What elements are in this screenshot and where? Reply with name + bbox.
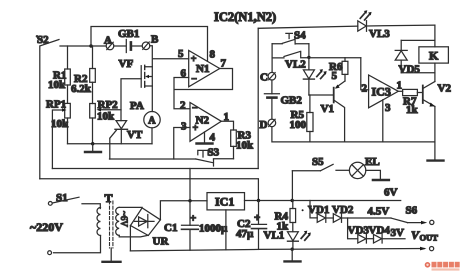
svg-text:47µ: 47µ	[236, 228, 254, 240]
battery GB2	[264, 80, 302, 119]
pushbutton S3	[110, 147, 234, 167]
capacitor C1	[164, 201, 228, 250]
resistor R5	[290, 95, 314, 142]
svg-text:RP1: RP1	[46, 99, 66, 111]
svg-text:RP2: RP2	[98, 99, 119, 111]
svg-text:10k: 10k	[48, 79, 66, 91]
IC1 output pin	[225, 210, 227, 250]
potentiometer RP2	[90, 99, 121, 144]
wire B to VF drain and N1 pin5	[150, 46, 189, 112]
svg-text:S3: S3	[208, 147, 220, 159]
resistor R4	[275, 201, 296, 233]
N2 pin4 ground	[197, 132, 213, 144]
led VL3	[358, 10, 435, 40]
svg-text:T: T	[105, 191, 113, 205]
pushbutton S4	[272, 30, 309, 73]
svg-text:~220V: ~220V	[30, 220, 63, 234]
right block bottom rail	[272, 127, 435, 142]
svg-text:IC3: IC3	[372, 85, 391, 99]
switch S5	[292, 156, 349, 201]
wire N1 feedback to N2 pin2	[174, 69, 233, 109]
svg-text:GB2: GB2	[281, 95, 303, 107]
bottom 0V rail	[130, 249, 424, 251]
svg-text:2: 2	[362, 83, 368, 95]
svg-text:VD2: VD2	[332, 204, 354, 216]
svg-text:N1: N1	[196, 63, 209, 75]
node junction R4	[291, 199, 294, 202]
svg-text:OUT: OUT	[420, 233, 439, 243]
op-amp N2	[180, 100, 229, 144]
watermark logo	[425, 262, 460, 271]
node junction C1	[188, 199, 191, 202]
svg-text:2: 2	[180, 100, 186, 112]
wire VT/PA bottom row	[68, 143, 153, 145]
svg-text:4.5V: 4.5V	[368, 206, 390, 218]
svg-text:1k: 1k	[406, 104, 419, 116]
lamp EL	[349, 156, 389, 180]
svg-text:K: K	[429, 49, 439, 63]
svg-text:VT: VT	[127, 129, 143, 141]
svg-text:V2: V2	[438, 83, 452, 95]
svg-text:7: 7	[221, 58, 227, 70]
svg-text:VL1: VL1	[264, 230, 285, 242]
transistor V1	[309, 81, 345, 142]
ground under RP2	[85, 144, 101, 152]
wire N2 output	[221, 121, 233, 130]
svg-text:VL3: VL3	[369, 28, 390, 40]
diode VD5	[395, 40, 435, 75]
led VL2	[285, 57, 327, 95]
svg-text:10k: 10k	[97, 111, 115, 123]
svg-text:6V: 6V	[384, 187, 398, 199]
svg-text:~6V: ~6V	[119, 211, 129, 227]
resistor R3	[231, 130, 254, 159]
diode VD3	[348, 218, 370, 243]
svg-text:3: 3	[385, 102, 391, 114]
svg-text:+: +	[254, 212, 260, 224]
svg-text:UR: UR	[153, 236, 170, 248]
svg-text:A: A	[104, 35, 112, 47]
bridge rectifier UR	[131, 208, 170, 248]
svg-text:100: 100	[290, 119, 307, 131]
svg-text:IC1: IC1	[215, 195, 234, 209]
diode VD2	[326, 204, 391, 222]
ammeter PA	[130, 100, 160, 144]
svg-text:−: −	[191, 74, 197, 85]
svg-text:5: 5	[178, 48, 184, 60]
svg-text:5: 5	[332, 70, 338, 82]
thyristor VT	[110, 121, 143, 159]
svg-text:A: A	[148, 116, 156, 127]
svg-text:N2: N2	[196, 115, 210, 127]
svg-text:VL2: VL2	[285, 59, 306, 71]
right block left edge	[257, 28, 259, 168]
svg-text:−: −	[192, 103, 198, 114]
svg-text:EL: EL	[365, 156, 380, 168]
svg-text:VD1: VD1	[308, 204, 329, 216]
svg-text:6.2k: 6.2k	[71, 83, 92, 95]
comparator IC3	[361, 58, 402, 142]
wire 6V rail	[245, 200, 401, 202]
transistor V2	[423, 82, 452, 161]
mosfet VF	[119, 58, 153, 121]
diode VD4	[366, 225, 405, 244]
resistor R7	[398, 89, 423, 116]
svg-text:S6: S6	[406, 205, 418, 217]
switch S1	[48, 192, 100, 209]
diode VD1	[308, 201, 329, 223]
wire RP1 rail W1	[52, 168, 258, 170]
svg-text:10k: 10k	[236, 140, 254, 152]
svg-text:GB1: GB1	[118, 28, 139, 40]
wire column to DC rail	[189, 169, 191, 201]
svg-text:S5: S5	[312, 156, 324, 168]
svg-text:VD5: VD5	[399, 64, 421, 76]
svg-text:V1: V1	[321, 103, 334, 115]
node junction R2-ground	[91, 142, 94, 145]
svg-text:VD3: VD3	[348, 225, 370, 237]
right edge down to K	[434, 25, 436, 47]
battery GB1	[114, 28, 142, 53]
terminal C	[260, 72, 276, 84]
led VL1	[264, 230, 311, 250]
node junction VL1-ground	[291, 248, 294, 251]
svg-text:IC2(N1,N2): IC2(N1,N2)	[214, 10, 276, 24]
stray dot	[302, 209, 304, 211]
node junction C2	[257, 199, 260, 202]
svg-text:PA: PA	[130, 100, 144, 112]
svg-text:VD4: VD4	[369, 225, 391, 237]
potentiometer RP1	[46, 99, 70, 169]
svg-text:8: 8	[210, 49, 216, 61]
switch S6	[391, 205, 434, 225]
capacitor C2	[236, 201, 267, 250]
ground under V2	[428, 159, 444, 161]
svg-text:1: 1	[397, 80, 403, 92]
svg-text:4: 4	[210, 132, 216, 144]
svg-text:C: C	[260, 72, 268, 84]
svg-text:+: +	[190, 213, 196, 225]
relay K	[419, 47, 449, 82]
right block top wire	[258, 26, 358, 28]
svg-text:VF: VF	[119, 58, 134, 70]
switch S2	[37, 34, 106, 179]
svg-text:C1: C1	[164, 222, 177, 234]
regulator IC1	[207, 193, 245, 210]
op-amp N1	[178, 48, 227, 87]
terminal A	[104, 35, 114, 50]
transformer T	[48, 191, 149, 262]
wire S4 row to R6 and IC3	[309, 57, 361, 59]
wire N2 pin3	[174, 128, 190, 160]
wire UR ac- to 0V rail	[129, 226, 131, 251]
wire S2 bottom / W2	[40, 179, 259, 201]
resistor R2	[71, 46, 95, 104]
svg-text:B: B	[151, 34, 159, 46]
resistor R1	[48, 46, 70, 103]
node junction S4-VL2	[307, 56, 310, 59]
svg-text:D: D	[260, 119, 268, 131]
terminal B	[142, 34, 159, 50]
frame	[36, 35, 39, 38]
svg-text:10k: 10k	[51, 118, 69, 130]
svg-text:3: 3	[181, 121, 187, 133]
svg-text:S2: S2	[37, 34, 49, 46]
resistor R6	[329, 58, 348, 82]
node junction A-R2	[89, 44, 92, 47]
svg-text:1000µ: 1000µ	[199, 223, 228, 235]
wire top bus to N1 pin8	[91, 27, 208, 62]
ground under VL1	[285, 249, 301, 261]
svg-text:3V: 3V	[391, 227, 405, 239]
terminal D	[260, 119, 276, 131]
wire UR dc+ to IC1	[160, 201, 207, 220]
